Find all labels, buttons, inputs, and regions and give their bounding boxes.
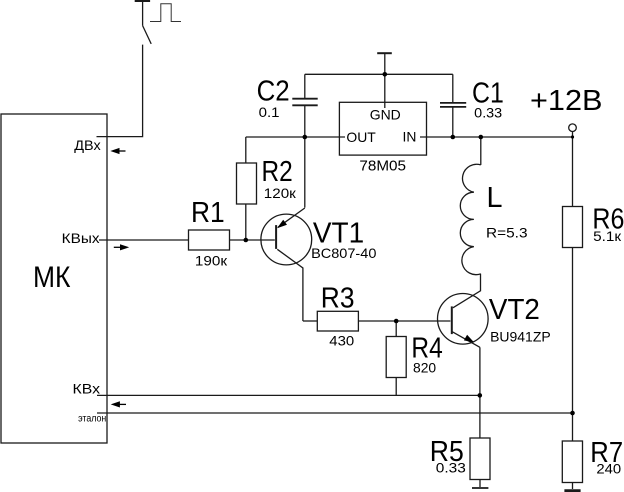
svg-text:5.1к: 5.1к bbox=[593, 228, 622, 244]
svg-text:78M05: 78M05 bbox=[359, 157, 406, 174]
svg-text:R2: R2 bbox=[262, 156, 293, 188]
svg-text:BC807-40: BC807-40 bbox=[311, 245, 377, 261]
svg-text:120к: 120к bbox=[264, 185, 297, 201]
svg-text:C2: C2 bbox=[257, 76, 290, 108]
svg-text:IN: IN bbox=[403, 128, 417, 144]
svg-text:R3: R3 bbox=[321, 283, 355, 315]
svg-text:BU941ZP: BU941ZP bbox=[490, 329, 551, 345]
svg-text:КВх: КВх bbox=[73, 381, 101, 397]
svg-text:L: L bbox=[487, 182, 503, 214]
svg-text:190к: 190к bbox=[195, 253, 228, 269]
svg-text:240: 240 bbox=[596, 461, 621, 477]
svg-text:R1: R1 bbox=[191, 197, 225, 229]
svg-text:0.33: 0.33 bbox=[474, 104, 502, 120]
svg-text:+12В: +12В bbox=[530, 85, 603, 117]
svg-text:ДВх: ДВх bbox=[74, 137, 100, 153]
svg-text:МК: МК bbox=[33, 261, 71, 294]
svg-text:OUT: OUT bbox=[346, 129, 376, 145]
svg-text:430: 430 bbox=[329, 333, 354, 349]
svg-text:КВых: КВых bbox=[62, 230, 100, 246]
svg-text:0.33: 0.33 bbox=[436, 460, 466, 476]
svg-text:0.1: 0.1 bbox=[259, 104, 280, 120]
svg-text:эталон: эталон bbox=[78, 414, 106, 425]
svg-text:GND: GND bbox=[370, 107, 401, 123]
svg-text:820: 820 bbox=[413, 359, 436, 375]
svg-text:VT2: VT2 bbox=[489, 294, 540, 326]
svg-text:R=5.3: R=5.3 bbox=[486, 224, 528, 240]
